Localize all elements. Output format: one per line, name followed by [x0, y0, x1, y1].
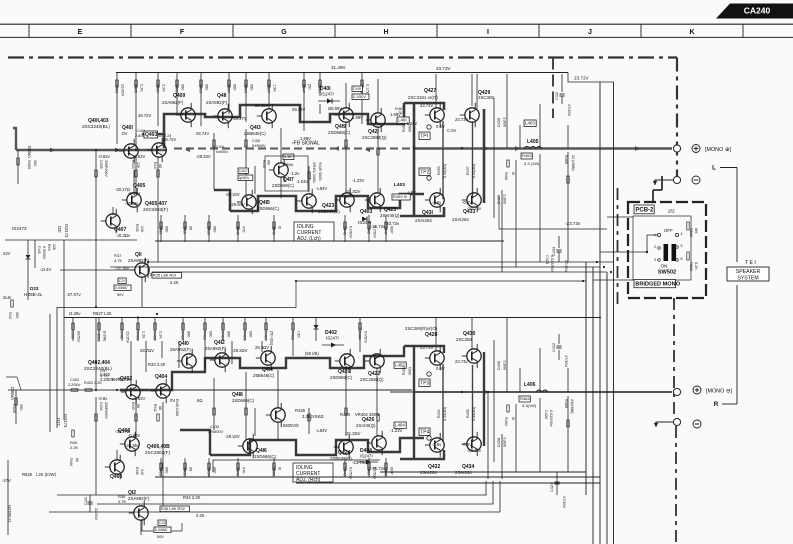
svg-text:(50: (50 — [308, 84, 312, 90]
transistor Q404 — [151, 374, 170, 403]
svg-text:I: I — [487, 29, 489, 36]
capacitor C422 — [558, 334, 560, 344]
svg-text:I.2K (I/2W): I.2K (I/2W) — [36, 472, 57, 477]
svg-text:I00F2: I00F2 — [503, 437, 507, 447]
wireR m5 — [162, 402, 164, 512]
svg-text:TP3: TP3 — [420, 380, 429, 386]
svg-text:I00F2: I00F2 — [503, 194, 507, 204]
wireR m13 — [519, 368, 521, 392]
svg-text:29.32V: 29.32V — [292, 107, 305, 112]
svg-text:R466: R466 — [564, 399, 568, 408]
wire c9 — [319, 104, 321, 114]
transistor Q427 — [408, 88, 444, 127]
svg-text:23.73V: 23.73V — [436, 66, 451, 71]
thick bus lower zigzag R — [210, 438, 424, 455]
svg-text:⊕]: ⊕] — [725, 147, 732, 153]
R-ch feedback row wire — [171, 389, 412, 391]
svg-text:(50 IΩB): (50 IΩB) — [270, 331, 274, 346]
svg-text:-1.23V: -1.23V — [390, 428, 403, 433]
svg-text:R33 2.2K: R33 2.2K — [148, 362, 166, 367]
lower drop R434 — [207, 458, 217, 477]
dash boundary near PCB-2 — [617, 188, 619, 308]
resistor R462 — [507, 405, 509, 412]
svg-text:1.89V: 1.89V — [390, 112, 401, 117]
svg-text:[MONO: [MONO — [706, 389, 724, 395]
R-ch supply rail — [64, 317, 601, 319]
wire m12 — [377, 127, 379, 193]
svg-text:Q427: Q427 — [424, 88, 436, 94]
svg-text:22K: 22K — [52, 244, 56, 251]
svg-text:R459 I0: R459 I0 — [393, 194, 408, 199]
svg-text:Q403: Q403 — [360, 209, 372, 215]
boxed C21 cap — [118, 278, 126, 283]
svg-text:HZI2B: HZI2B — [97, 331, 101, 342]
svg-text:-3.6ν: -3.6ν — [432, 442, 441, 447]
transistor Q423 — [297, 189, 340, 214]
svg-text:R4II: R4II — [153, 162, 157, 169]
svg-text:680: 680 — [227, 331, 231, 337]
svg-text:-31.2ΩV: -31.2ΩV — [345, 189, 361, 194]
svg-text:TP2: TP2 — [420, 169, 429, 175]
rail drop R422 — [203, 318, 213, 342]
svg-text:0.I/50V: 0.I/50V — [349, 226, 353, 238]
wire m7 — [213, 133, 215, 190]
svg-text:Iμ/50ν: Iμ/50ν — [239, 176, 250, 180]
svg-text:29.35V: 29.35V — [255, 103, 268, 108]
svg-text:-29.33V: -29.33V — [225, 434, 240, 439]
svg-text:-1.23V: -1.23V — [352, 178, 365, 183]
svg-text:470: 470 — [242, 467, 246, 473]
svg-text:R407: R407 — [156, 84, 160, 93]
svg-text:R428: R428 — [291, 331, 295, 340]
bottom wire 2 — [57, 481, 486, 495]
svg-text:-L84V: -L84V — [316, 428, 327, 433]
transistor Q422 — [360, 349, 384, 382]
svg-text:-3I.3Ων: -3I.3Ων — [116, 233, 131, 238]
rail drop R408 — [153, 318, 163, 342]
svg-text:-29.2ΩV: -29.2ΩV — [232, 348, 248, 353]
svg-text:R445: R445 — [236, 226, 240, 235]
svg-text:IS247I: IS247I — [360, 454, 373, 459]
svg-text:25A992(F): 25A992(F) — [170, 347, 191, 352]
transistor Q420 — [330, 349, 354, 380]
svg-text:R463: R463 — [522, 153, 532, 158]
svg-text:L404: L404 — [395, 423, 405, 428]
wire Q430 collector — [471, 318, 473, 350]
wire from R- terminal — [656, 422, 673, 427]
wireR m3 — [135, 399, 137, 437]
svg-text:0.033/50ν: 0.033/50ν — [549, 410, 553, 427]
svg-text:0V: 0V — [170, 398, 175, 403]
junction — [413, 147, 415, 149]
svg-text:23.73ν: 23.73ν — [455, 359, 468, 364]
wireR m14 — [539, 348, 541, 392]
lower drop R445 — [236, 215, 246, 242]
lower drop C448 — [384, 458, 394, 477]
svg-text:C402: C402 — [70, 378, 79, 382]
svg-text:2SB649(C): 2SB649(C) — [330, 456, 352, 461]
svg-text:0.0068/: 0.0068/ — [115, 286, 129, 290]
svg-text:22 (I/8W): 22 (I/8W) — [571, 155, 575, 171]
wireR m7 — [245, 372, 247, 440]
svg-text:R447: R447 — [302, 84, 306, 93]
wire from L- terminal — [655, 180, 673, 185]
output terminal L+ — [673, 145, 680, 152]
output terminal L- — [673, 176, 680, 183]
svg-text:2SA992(F): 2SA992(F) — [162, 100, 184, 105]
minus symbol R — [693, 420, 701, 428]
svg-text:-27V: -27V — [2, 478, 11, 483]
transistor Q411b — [128, 252, 150, 282]
svg-text:28.7ΩV: 28.7ΩV — [140, 348, 154, 353]
wire c4 — [200, 96, 202, 126]
wire Q428 collector — [435, 318, 437, 352]
svg-text:0.I/50V: 0.I/50V — [349, 467, 353, 479]
svg-text:I00F2: I00F2 — [503, 117, 507, 127]
rail drop R428 — [291, 318, 301, 342]
PCB-1 dashed boundary right vertical — [676, 58, 678, 177]
lower drop C446 — [343, 458, 353, 479]
svg-text:R434: R434 — [207, 467, 211, 476]
svg-text:-31.2ΩV: -31.2ΩV — [345, 431, 361, 436]
svg-text:2SA992(F): 2SA992(F) — [206, 100, 228, 105]
wire c10 — [345, 83, 347, 108]
svg-text:0.0068/: 0.0068/ — [155, 528, 169, 532]
svg-text:680: 680 — [213, 226, 217, 232]
svg-text:C422: C422 — [552, 343, 556, 352]
svg-text:VR502: VR502 — [10, 386, 15, 400]
L-ch rail segment 23.73V — [568, 73, 614, 83]
svg-text:1.89V: 1.89V — [300, 136, 311, 141]
svg-text:3.3K: 3.3K — [284, 154, 293, 159]
junction — [95, 149, 97, 151]
transistor Q424 — [330, 435, 353, 461]
svg-text:68: 68 — [158, 406, 162, 410]
svg-text:R458: R458 — [466, 409, 470, 418]
svg-text:Q4II: Q4II — [217, 93, 227, 99]
transistor Q426 — [356, 417, 386, 455]
resistor element — [345, 140, 347, 147]
svg-text:C.6V: C.6V — [447, 128, 457, 133]
svg-text:3: 3 — [654, 258, 656, 262]
svg-text:0.I/50V: 0.I/50V — [364, 331, 368, 343]
svg-text:R42: R42 — [8, 312, 12, 319]
svg-text:330P/I00V: 330P/I00V — [104, 402, 108, 419]
svg-text:0.33(3Ω): 0.33(3Ω) — [443, 407, 447, 421]
svg-text:-29.94V: -29.94V — [230, 202, 245, 207]
svg-text:R433: R433 — [207, 226, 211, 235]
svg-text:0.033/50ν: 0.033/50ν — [550, 255, 554, 272]
svg-text:390: 390 — [19, 404, 23, 410]
svg-text:L403: L403 — [525, 121, 535, 126]
svg-text:3.3 (1W): 3.3 (1W) — [524, 161, 540, 166]
svg-text:2SD669(C): 2SD669(C) — [232, 398, 254, 403]
wires into PCB-2 — [652, 190, 654, 201]
svg-text:R405: R405 — [134, 84, 138, 93]
bias network boxes near Q417 — [283, 154, 294, 160]
svg-text:C43ι: C43ι — [216, 145, 224, 149]
wire m3 — [135, 157, 137, 194]
wire m2 — [95, 150, 97, 307]
lower drop R42I — [159, 215, 169, 242]
svg-text:-0.62V: -0.62V — [133, 396, 146, 401]
svg-text:1.89V: 1.89V — [352, 115, 363, 120]
svg-text:-27.07ν: -27.07ν — [66, 292, 81, 297]
thick bus upper zigzag L — [164, 103, 404, 148]
resistor R529 — [687, 222, 689, 230]
wire c7 — [268, 96, 270, 109]
svg-text:D406: D406 — [497, 361, 501, 370]
svg-text:2SAIIII(Q): 2SAIIII(Q) — [380, 213, 400, 218]
rail drop R426 — [243, 318, 253, 342]
svg-text:22/35V: 22/35V — [121, 84, 125, 97]
svg-text:C404: C404 — [99, 402, 103, 411]
svg-text:680: 680 — [249, 331, 253, 337]
TP2 test point — [419, 168, 430, 175]
PCB-2 module box — [628, 202, 706, 298]
svg-text:CA240: CA240 — [744, 6, 771, 16]
bottom wire 4 — [49, 481, 500, 512]
R channel output wire — [390, 391, 414, 393]
wire y229 to rails — [499, 195, 607, 229]
rail drop R425 — [199, 72, 209, 96]
resistor element — [157, 170, 159, 177]
svg-text:L: L — [712, 165, 716, 172]
svg-text:6: 6 — [681, 257, 683, 261]
svg-text:22(I/8W): 22(I/8W) — [570, 399, 574, 414]
svg-text:680: 680 — [165, 226, 169, 232]
svg-text:2SC2240(BL): 2SC2240(BL) — [84, 366, 112, 371]
svg-text:Iιν500ν: Iιν500ν — [216, 150, 228, 154]
transistor Q414 — [253, 346, 275, 378]
coil L404 — [394, 422, 406, 428]
svg-text:28.72V: 28.72V — [138, 113, 151, 118]
svg-text:C4I5: C4I5 — [37, 246, 41, 254]
svg-text:2SAI264: 2SAI264 — [455, 470, 472, 475]
svg-text:R505: R505 — [27, 160, 31, 169]
svg-text:50V: 50V — [157, 535, 164, 539]
wire m16 — [539, 104, 541, 148]
svg-text:680: 680 — [250, 84, 254, 90]
svg-text:I00F2: I00F2 — [503, 360, 507, 370]
svg-text:R4I4: R4I4 — [69, 458, 73, 466]
svg-text:2SA992(F): 2SA992(F) — [128, 496, 150, 501]
svg-text:R35 L8K R3I: R35 L8K R3I — [153, 273, 176, 278]
svg-text:-L5V: -L5V — [407, 190, 416, 195]
svg-text:C22: C22 — [159, 521, 166, 525]
resistor R42 — [11, 300, 13, 307]
svg-text:22/35V: 22/35V — [94, 508, 98, 521]
coil L402 — [394, 362, 406, 368]
junction — [135, 389, 137, 391]
svg-text:II0/50ν: II0/50ν — [77, 331, 81, 342]
svg-text:2SA992(F): 2SA992(F) — [128, 258, 150, 263]
lower drop D4I5 — [367, 215, 377, 242]
left mid wires — [27, 240, 29, 300]
svg-text:I00P: I00P — [390, 226, 394, 234]
lower drop C447 — [384, 215, 394, 242]
svg-text:G: G — [281, 29, 287, 36]
svg-text:-L84V: -L84V — [316, 186, 327, 191]
svg-text:C4I4: C4I4 — [358, 331, 362, 339]
svg-text:2SC3181 or(O): 2SC3181 or(O) — [408, 95, 438, 100]
resistor element — [213, 140, 215, 147]
svg-text:2SAI264: 2SAI264 — [415, 218, 432, 223]
svg-text:ON: ON — [661, 264, 668, 269]
wire c6 — [245, 96, 247, 122]
svg-text:SW502: SW502 — [658, 270, 676, 276]
svg-text:IS2473: IS2473 — [64, 224, 69, 238]
svg-text:2.2K: 2.2K — [170, 280, 179, 285]
svg-text:R4I8,C406: R4I8,C406 — [175, 399, 179, 416]
svg-text:390: 390 — [15, 312, 19, 318]
svg-text:I.5K: I.5K — [297, 331, 301, 338]
wireR c1 — [130, 341, 132, 385]
junction — [295, 280, 297, 282]
resistor element R — [245, 408, 247, 415]
svg-text:47/35V: 47/35V — [564, 260, 568, 273]
transistor Q421 — [362, 108, 387, 140]
svg-text:68: 68 — [158, 164, 162, 168]
svg-text:R36 L8K R32: R36 L8K R32 — [161, 506, 186, 511]
svg-text:-0.6V: -0.6V — [462, 442, 472, 447]
svg-text:SYSTEM: SYSTEM — [737, 276, 758, 282]
transistor Q432 — [420, 433, 444, 475]
svg-text:R528: R528 — [22, 472, 33, 477]
svg-text:22V: 22V — [3, 251, 11, 256]
svg-text:IS247I: IS247I — [321, 92, 334, 97]
Q12 wires — [100, 494, 135, 496]
wireR m11 — [345, 366, 347, 436]
resistor element R — [157, 414, 159, 421]
svg-text:2SC2603(F): 2SC2603(F) — [143, 207, 168, 212]
svg-text:68: 68 — [189, 467, 193, 471]
wire m1 — [116, 96, 118, 144]
L output column verticals — [501, 190, 503, 272]
svg-text:68: 68 — [136, 404, 140, 408]
transistor Q430 — [456, 331, 481, 368]
collector step Q401 — [142, 133, 164, 135]
svg-text:D408: D408 — [497, 438, 501, 447]
resistor element — [308, 172, 310, 179]
svg-text:0V: 0V — [122, 131, 127, 136]
svg-text:C4I9: C4I9 — [353, 87, 361, 91]
dashed stub near x553 — [552, 58, 554, 119]
svg-text:2SAIIII(Q): 2SAIIII(Q) — [356, 423, 376, 428]
svg-text:T E I: T E I — [745, 260, 756, 266]
lower drop R422 — [159, 458, 169, 477]
transistor Q419 — [328, 103, 353, 135]
junction — [487, 391, 489, 393]
transistor Q410 — [170, 341, 196, 373]
svg-text:(50 I/B): (50 I/B) — [305, 351, 319, 356]
svg-text:ADJ. (Rch): ADJ. (Rch) — [296, 477, 321, 483]
rail drop R406 — [136, 318, 146, 342]
transistor Q412 — [205, 340, 229, 372]
svg-text:47/35V: 47/35V — [564, 355, 568, 368]
junction — [95, 389, 97, 391]
svg-text:47/35V: 47/35V — [562, 496, 566, 509]
svg-text:I0ι: I0ι — [75, 458, 79, 462]
svg-text:390: 390 — [33, 160, 37, 166]
transistor Q403 — [147, 138, 166, 162]
grid ruler band — [0, 24, 793, 37]
svg-text:R422: R422 — [159, 467, 163, 476]
svg-text:2.2K: 2.2K — [70, 445, 79, 450]
resistor element R — [345, 408, 347, 415]
svg-text:R454: R454 — [437, 409, 441, 418]
rail drop D401 — [318, 72, 322, 96]
right vertical rail 5 — [613, 82, 615, 544]
transistor Q408 — [105, 455, 124, 480]
svg-text:R432: R432 — [183, 467, 187, 476]
svg-text:2SB646(C): 2SB646(C) — [244, 131, 266, 136]
svg-text:-20.73ν: -20.73ν — [467, 206, 481, 211]
svg-text:4.7K: 4.7K — [114, 258, 123, 263]
svg-text:R440: R440 — [340, 412, 351, 417]
svg-text:PCB-2: PCB-2 — [635, 208, 654, 214]
svg-text:R424: R424 — [221, 331, 225, 340]
wireR c5 — [204, 341, 206, 368]
wireR m9 — [277, 422, 279, 440]
PCB-2 label — [634, 205, 654, 214]
capacitor C433 — [558, 236, 560, 248]
wire c5 — [228, 96, 230, 114]
minus symbol L — [692, 176, 700, 184]
resistor element R — [95, 414, 97, 421]
transistor Q434 — [455, 432, 481, 475]
svg-text:R403: R403 — [131, 160, 135, 169]
wire Q427 collector — [435, 74, 437, 108]
svg-text:R426: R426 — [243, 331, 247, 340]
svg-text:I0: I0 — [511, 172, 515, 175]
boxed R36 R32 — [160, 506, 189, 512]
mid feedback wire 1 — [148, 261, 614, 263]
lower drop R450 — [272, 458, 282, 477]
svg-text:29.3ΩV: 29.3ΩV — [255, 345, 269, 350]
transistor Q433 — [452, 188, 481, 222]
wireR m8 — [277, 370, 279, 408]
svg-text:(I/8W): (I/8W) — [283, 163, 294, 167]
svg-text:25A992(F): 25A992(F) — [205, 346, 226, 351]
svg-text:OFF: OFF — [664, 228, 673, 233]
lower drop R449 — [272, 215, 282, 242]
svg-text:K: K — [689, 29, 694, 36]
svg-text:I8K: I8K — [694, 228, 698, 234]
wire m8 — [245, 129, 247, 198]
svg-text:R450: R450 — [272, 467, 276, 476]
svg-text:IS247I: IS247I — [326, 336, 339, 341]
svg-text:680: 680 — [187, 331, 191, 337]
PCB-1 dashed boundary top — [8, 56, 677, 58]
junction — [157, 149, 159, 151]
svg-text:0V: 0V — [118, 376, 123, 381]
svg-text:R420: R420 — [181, 331, 185, 340]
svg-text:0.6V: 0.6V — [436, 366, 445, 371]
wireR c9 — [359, 328, 361, 352]
svg-text:2L6ι: 2L6ι — [3, 295, 11, 300]
svg-text:‹FB SIGNAL: ‹FB SIGNAL — [292, 141, 320, 147]
main input bus L — [16, 149, 167, 151]
wire c12 — [361, 86, 363, 124]
svg-text:C423: C423 — [545, 255, 549, 264]
wireR m4 — [116, 450, 118, 460]
svg-text:2.2K: 2.2K — [159, 331, 163, 339]
wireR m16 — [254, 408, 256, 436]
junction — [147, 261, 149, 263]
svg-text:I00: I00 — [267, 160, 271, 165]
bottom wire 1 — [380, 471, 586, 473]
